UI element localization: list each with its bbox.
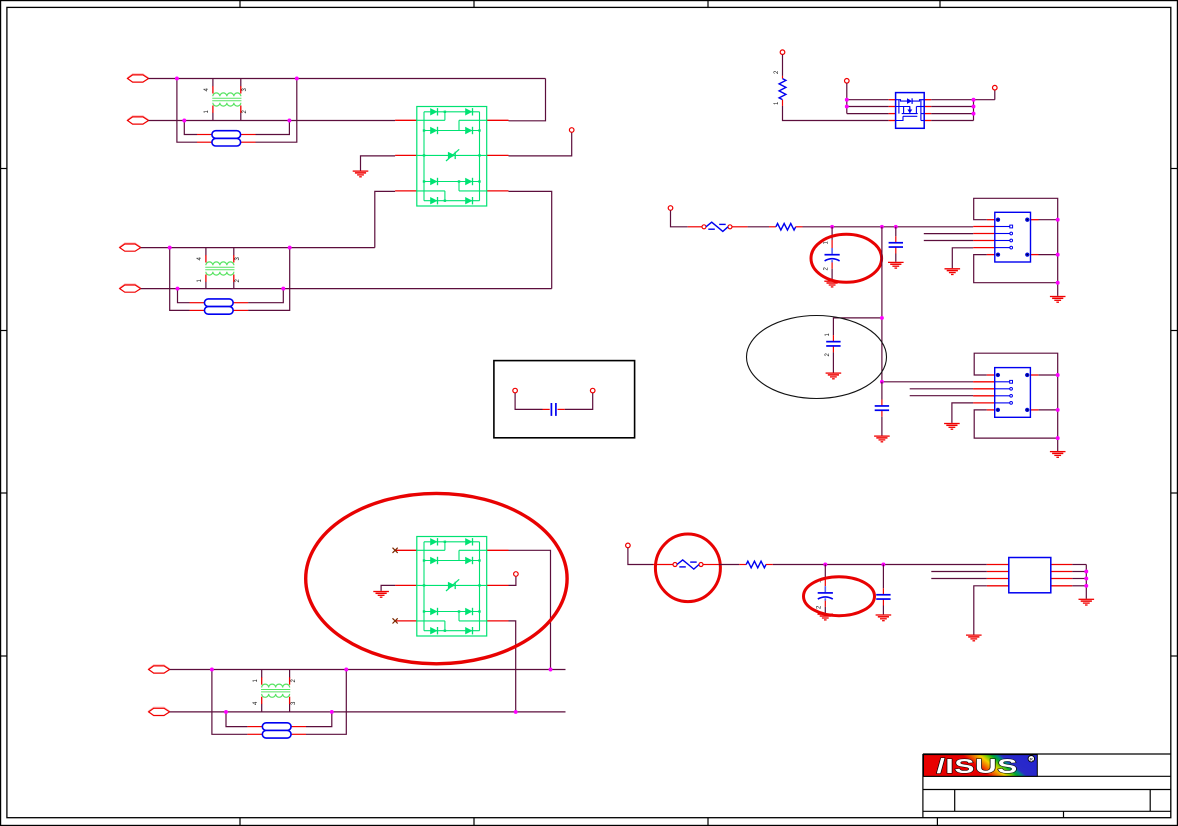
highlight circle around RV2 <box>655 534 720 602</box>
wire C15 to ground <box>882 606 884 615</box>
junction dots circuit2 <box>168 246 172 250</box>
wire CN1 pin rows 2,3 <box>924 233 973 235</box>
wire main bus down (x881.5) <box>881 227 883 318</box>
frame zone ticks right <box>1171 169 1178 657</box>
ground below C11 <box>888 262 904 268</box>
wire P6 bottom wire <box>170 711 566 713</box>
wire CN1 row4 to ground <box>952 248 973 268</box>
bridge rectifier BD2 <box>395 537 508 637</box>
ground CN2 right bus <box>1050 452 1066 458</box>
wire F3 top row right up to bottom wire <box>306 712 332 727</box>
port circle C6 <box>514 572 519 577</box>
wire RV2 to R3 <box>719 564 740 566</box>
T1 pin labels <box>204 88 248 114</box>
right bus vertical <box>973 100 975 121</box>
wire port C4 drop <box>994 90 996 100</box>
wire C8 down and right <box>515 393 542 409</box>
wire to U1 pin2 <box>847 106 889 108</box>
wire bus elbow to C12 <box>833 318 882 335</box>
wire CN2 rows 2,3 <box>910 388 973 390</box>
wire C11 to ground <box>895 254 897 262</box>
wire CN2 right corner stubs <box>1039 374 1058 376</box>
port P1 (AC line 1) <box>128 74 149 82</box>
frame zone ticks bottom <box>240 818 937 826</box>
wire riser bottom wire to F2 top row <box>178 289 190 303</box>
wire BD1 left pin2 to ground <box>361 156 396 171</box>
ground below CN1 row4 <box>945 269 961 275</box>
wire CN1 bottom corner loop <box>974 255 1058 283</box>
ground below CN2 row4 <box>944 424 960 430</box>
frame zone ticks top <box>240 0 940 7</box>
resistor R2 (horizontal) <box>769 224 803 231</box>
wire F2 top row right up to bottom wire <box>248 289 283 303</box>
wire U2 left rows 2,3 <box>931 571 987 573</box>
port circle C5 <box>668 206 673 211</box>
C12 pin labels <box>825 333 831 357</box>
ground CN1 right bus <box>1050 297 1066 303</box>
port circle C4 <box>993 85 998 90</box>
transformer T1 (common-mode choke) <box>212 86 241 113</box>
T2 pin labels <box>197 257 241 283</box>
capacitor C10 (polarized) <box>825 240 840 269</box>
wire F2 bottom row right up to top wire <box>248 248 290 311</box>
wire CN1 right corner stubs <box>1039 219 1058 221</box>
wire T1 pin1 drop <box>212 113 214 121</box>
diode inside U1 <box>907 98 912 104</box>
ground below C13 <box>874 436 890 442</box>
wire U1 right pin2 <box>931 106 973 108</box>
wire down to cap C11 <box>895 227 897 237</box>
wire C2 to R1 <box>782 55 784 76</box>
C10 pin labels <box>824 241 830 271</box>
highlight ellipse around C10 <box>811 234 882 282</box>
wire U2 right rows to bus <box>1072 564 1086 566</box>
transformer T3 (common-mode choke) <box>261 677 290 704</box>
T3 pin labels <box>253 679 297 706</box>
mosfet arrow inside U1 <box>907 110 912 114</box>
wire down to polarized cap C10 <box>831 227 833 240</box>
ground below C10 <box>824 281 840 287</box>
port circle C3 <box>845 79 850 84</box>
varistor RV1 (surge arrester) <box>702 222 732 231</box>
wire bus continue down <box>881 318 883 382</box>
ASUS logo <box>924 755 1038 778</box>
resistor R3 (horizontal) <box>739 561 773 568</box>
wire F1 bottom row right up to top wire <box>256 79 297 143</box>
svg-text:R: R <box>1030 757 1034 763</box>
wire C5 down and right <box>671 210 688 226</box>
module U2 pin stubs <box>987 565 1073 586</box>
wire T2 pin drops <box>205 248 207 256</box>
wire T1 pin3 drop <box>240 79 242 87</box>
module U2 box <box>1009 558 1051 593</box>
wire U2 row4 to ground <box>974 586 987 635</box>
port P6 <box>149 707 170 715</box>
wire riser up to bridge right pin3 <box>509 191 552 288</box>
wire BD1 right pin2 to port <box>509 133 572 156</box>
wire P5 top wire <box>170 669 566 671</box>
capacitor C13 <box>875 400 889 417</box>
wire riser top wire to fuse F1 bottom row <box>177 79 197 143</box>
wire U1 right pin3 <box>931 113 973 115</box>
connector CN1 <box>973 212 1038 262</box>
wire down to polarized cap C14 <box>824 565 826 579</box>
transformer T2 (common-mode choke) <box>205 255 234 282</box>
wire U1 right pin4 <box>931 120 973 122</box>
wire R3 to U2 pin1 <box>773 564 987 566</box>
wire CN1 top corner loop <box>974 198 1058 296</box>
no-connect X on BD2 left pin3 <box>393 618 398 623</box>
port circle C7 <box>626 543 631 548</box>
wire P1 to corner x545 <box>149 78 546 80</box>
capacitor C12 <box>826 335 840 352</box>
wire C9 down and left <box>565 393 593 409</box>
wire P2 to bridge left pin1 <box>149 120 396 122</box>
ground below C14 <box>818 614 834 620</box>
port P2 (AC line 2) <box>128 116 149 124</box>
resistor R1 (vertical) <box>779 76 786 106</box>
wire T3 pin drops <box>261 670 263 678</box>
MOSFET module U1 <box>889 93 932 129</box>
wire P4 long to riser x551.2 <box>141 288 552 290</box>
title block table <box>923 754 1171 818</box>
wire F3 bottom row right up to top wire <box>306 670 346 735</box>
wire down to cap C13 <box>881 382 883 400</box>
port P4 <box>120 284 141 292</box>
wire C10 to ground <box>831 269 833 281</box>
wire riser top wire to F2 bottom row <box>170 248 190 311</box>
wire riser top wire to F3 bottom row <box>212 670 248 735</box>
capacitor C14 (polarized) <box>818 578 833 607</box>
wire BD2 right pin2 up to port <box>509 577 516 586</box>
black outline box <box>494 361 635 438</box>
wire riser bottom wire to fuse F1 top row <box>184 121 197 135</box>
fuse F1 (dual stadium) <box>197 131 256 146</box>
wire P3 to riser x374.3 <box>141 247 375 249</box>
wire riser bottom wire to F3 top row <box>226 712 247 727</box>
junction dots circuit3 <box>210 668 214 672</box>
wire R2 to CN1 pin1 <box>803 226 974 228</box>
wire to U1 pin1 <box>847 99 889 101</box>
right bus vertical <box>1085 565 1087 599</box>
svg-text:/ISUS: /ISUS <box>937 756 1018 778</box>
thin ellipse around C12 <box>747 316 887 399</box>
wire T1 pin2 drop <box>240 113 242 121</box>
connector CN2 <box>973 368 1038 418</box>
wire C3 down bus <box>846 83 848 113</box>
port circle C1 <box>569 128 574 133</box>
wire C14 to ground <box>824 607 826 614</box>
red pin leads varistor RV1 <box>688 226 748 228</box>
port P3 <box>120 243 141 251</box>
big highlight ellipse around BD2 <box>306 493 567 663</box>
wire RV1 to R2 <box>748 226 769 228</box>
capacitor C11 <box>889 236 903 253</box>
ground below C12 <box>826 373 842 379</box>
fuse F3 <box>247 723 306 738</box>
capacitor CX (series, in box) <box>543 403 565 416</box>
wire F1 top row right up to bottom wire <box>256 121 290 135</box>
wire R1 bottom to U1 pin4 <box>783 106 889 121</box>
junction dots circuit1 <box>175 77 179 81</box>
highlight ellipse around C14 <box>804 577 875 616</box>
port circle C2 <box>780 50 785 55</box>
wire riser up to bridge left pin3 <box>375 191 395 247</box>
ground below C15 <box>876 615 892 621</box>
wire BD2 left pin2 to ground <box>381 585 395 591</box>
varistor RV2 (surge arrester) <box>673 560 703 569</box>
wire U1 right pin1 to port riser <box>931 99 995 101</box>
wire BD2 right pin3 down to T3 bottom wire <box>509 621 516 712</box>
red pin leads varistor RV2 <box>653 564 719 566</box>
capacitor C15 <box>876 588 890 605</box>
port circle C9 <box>590 388 595 393</box>
wire CN2 top corner loop <box>974 353 1057 451</box>
wire C13 to ground <box>881 417 883 436</box>
ground at BD2 pin2 <box>373 592 389 598</box>
no-connect X on BD2 left pin1 <box>393 548 398 553</box>
ground below U2 row4 <box>966 635 982 641</box>
wire CN2 bottom corner loop <box>974 410 1057 438</box>
fuse F2 <box>190 299 249 314</box>
wire T1 pin4 drop <box>212 79 214 87</box>
port circle C8 <box>513 388 518 393</box>
C14 pin labels <box>817 579 823 609</box>
wire BD2 right pin1 down to T3 top wire <box>509 550 551 669</box>
R1 pin labels <box>774 70 780 105</box>
wire C7 down and right <box>628 548 653 565</box>
wire down to cap C15 <box>882 565 884 589</box>
ground at BD1 pin2 <box>353 171 369 177</box>
wire CN2 row4 to ground <box>952 403 973 423</box>
wire corner down to bridge right pin1 <box>509 79 546 121</box>
wire C12 to ground <box>832 352 834 372</box>
ground U2 right bus <box>1079 599 1095 605</box>
wire to U1 pin3 <box>847 113 889 115</box>
wire bus to CN2 pin1 <box>882 381 973 383</box>
frame zone ticks left <box>0 169 7 657</box>
port P5 <box>149 665 170 673</box>
